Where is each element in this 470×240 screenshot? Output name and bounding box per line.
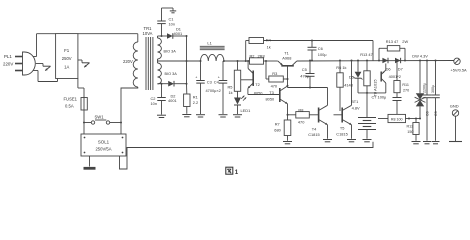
wire F1 to fuse [77,79,79,89]
svg-text:1k: 1k [229,90,233,95]
ground at LED1 [233,114,242,116]
ground at T5 [347,139,356,141]
svg-text:R13 47: R13 47 [386,39,399,44]
diode D5 4148 [357,60,359,62]
svg-text:R8 100: R8 100 [391,118,403,122]
svg-text:SOL1: SOL1 [98,140,110,145]
earth arrow at F1 [78,59,82,61]
svg-text:470μ: 470μ [300,73,309,78]
svg-text:C8: C8 [425,111,429,116]
svg-text:4.8V: 4.8V [352,106,360,111]
ground under SOL1 [89,156,91,167]
transistor T2 8050 [247,60,249,62]
svg-text:C1815: C1815 [308,132,319,137]
svg-text:DW 4.3V: DW 4.3V [412,53,428,58]
plug PL1 [23,52,36,75]
ground at C8 [423,141,431,143]
wire secondary bottom row [158,83,169,85]
svg-text:BT1: BT1 [351,99,358,104]
wire plug bottom pin to F1 bottom [33,70,38,72]
ground at T4 [323,139,332,141]
resistor R9 [366,60,368,62]
resistor R5 1k [237,60,239,62]
capacitor C4 4700u [222,61,224,81]
wire battery node row [358,92,386,94]
svg-text:10n: 10n [169,22,176,27]
svg-text:T5: T5 [340,126,345,131]
wire plug top pin to F1 [33,56,37,58]
transformer TR1 secondary winding upper [158,38,162,59]
capacitor C7 100u [396,93,398,98]
capacitor C5 470u [309,60,311,62]
transistor T3 8050 [279,88,281,102]
svg-text:LED1: LED1 [241,108,251,113]
ground at C9 [432,141,440,143]
svg-text:R4: R4 [266,37,272,42]
earth arrow at plug [36,63,43,65]
svg-text:0.5A: 0.5A [65,104,74,109]
ground at R1 [182,114,191,116]
svg-text:10n: 10n [151,101,158,106]
transistor T4 C1815 [318,108,320,123]
svg-text:T3: T3 [269,90,274,95]
ground at C3 [196,114,205,116]
svg-text:D6: D6 [386,67,391,72]
transformer TR1 core [145,37,147,90]
svg-text:C5: C5 [302,67,307,72]
svg-text:10VA: 10VA [143,31,153,36]
svg-text:R6 1k: R6 1k [336,65,346,70]
svg-text:470: 470 [271,83,278,88]
svg-text:+5V/0.5A: +5V/0.5A [451,68,468,73]
svg-text:D7: D7 [398,67,403,72]
svg-text:BIO 3A: BIO 3A [165,72,178,76]
resistor R12 150 [415,119,417,123]
svg-text:C9: C9 [434,111,438,116]
resistor R11 270 [396,60,398,62]
svg-text:R2: R2 [250,53,255,58]
svg-text:470: 470 [298,120,305,125]
resistor R2 2R8 [250,58,264,64]
svg-text:2W: 2W [402,39,408,44]
svg-text:BIO 3A: BIO 3A [164,50,177,54]
svg-text:2200μ: 2200μ [423,83,427,93]
svg-text:L1: L1 [207,41,212,46]
diode D6 4001 [382,58,388,63]
svg-text:R13 47: R13 47 [360,52,373,57]
svg-text:4148: 4148 [344,82,353,87]
svg-text:T2: T2 [255,82,260,87]
svg-text:+: + [195,75,197,79]
fuse FUSE1 0.5A [81,98,87,111]
svg-text:4001: 4001 [174,31,183,36]
capacitor C1 10n [161,24,163,36]
ground at R7 [283,141,292,143]
resistor R8 470 [288,114,296,116]
resistor R1 2.2 [186,84,188,94]
wire T2 emitter to T3 base [248,94,280,96]
svg-text:R12: R12 [407,124,414,128]
diode D1 4001 [167,33,173,39]
svg-text:220V: 220V [123,59,133,64]
transformer TR1 primary winding [78,33,138,35]
bottom return wire from SOL1 [120,142,374,169]
terminal +5V 0.5A [454,58,460,64]
svg-text:R7: R7 [275,122,280,127]
svg-text:4001*2: 4001*2 [389,74,401,79]
capacitor C6 100u [311,40,313,42]
svg-text:150: 150 [407,130,413,134]
transistor T1 A968 [281,65,294,67]
svg-text:1k: 1k [267,44,271,49]
wire rail L1 to R2 [224,60,250,62]
svg-text:680: 680 [274,128,281,133]
transformer TR1 secondary winding lower [158,63,162,84]
ground at C2 [157,114,166,116]
svg-text:R8: R8 [298,108,303,113]
svg-text:R11: R11 [402,83,409,87]
svg-text:2.2: 2.2 [193,100,198,105]
svg-text:PL1: PL1 [4,54,12,59]
wire secondary center tap to L1 [158,60,201,62]
filter F1 box [56,34,78,79]
svg-text:4001: 4001 [168,98,177,103]
wire T5 base [334,114,343,116]
node error amp / T1 base row [287,86,289,88]
svg-text:T1: T1 [284,50,289,55]
solenoid SOL1 box [83,123,85,135]
svg-text:220V: 220V [3,62,13,67]
svg-text:C6: C6 [318,46,323,51]
ground at R12 [412,141,421,143]
svg-text:C7 100μ: C7 100μ [372,94,387,99]
svg-text:1: 1 [235,169,239,176]
svg-text:C3: C3 [207,80,212,85]
resistor R7 680 [284,120,291,136]
svg-text:C1815: C1815 [336,131,347,136]
capacitor C3 4700u [200,61,202,81]
svg-text:FUSE1: FUSE1 [64,96,78,101]
resistor R8 100 [378,118,388,120]
svg-text:8050: 8050 [266,97,275,102]
transistor T5 C1815 [341,108,343,123]
svg-text:1A: 1A [64,64,69,69]
inductor L1 [201,54,224,61]
capacitor C8 2200u [426,60,428,62]
ground at C4 [219,114,228,116]
switch SW1 [84,122,91,124]
capacitor C9 300u [435,60,437,62]
svg-text:D5: D5 [349,75,354,80]
svg-text:F1: F1 [64,48,70,53]
svg-text:4700μ×2: 4700μ×2 [206,88,221,93]
svg-text:R3: R3 [272,71,277,76]
LED1 [237,91,239,97]
diode D7 4001 [395,58,401,63]
svg-text:A968: A968 [282,56,291,61]
svg-text:SW1: SW1 [95,115,105,120]
svg-text:250V/5A: 250V/5A [95,146,111,151]
svg-text:270: 270 [403,89,409,93]
svg-text:GND: GND [450,103,459,108]
diode D2 4001 [168,81,174,87]
caption Fig 1 [226,167,233,174]
resistor R6 1k [339,60,341,62]
wire secondary top row [158,35,168,37]
svg-text:250V: 250V [62,56,72,61]
svg-text:C4: C4 [214,80,220,85]
svg-text:100μ: 100μ [318,52,327,57]
svg-text:300μ: 300μ [431,85,435,93]
resistor R3 470 [265,60,267,62]
capacitor C2 10n [161,84,163,98]
resistor R13 47 2W [378,60,380,62]
ground at BT1 [363,139,372,141]
resistor R4 1k and top rail [245,60,247,62]
node rectifier bus [186,36,188,84]
svg-text:2R8: 2R8 [258,53,265,58]
